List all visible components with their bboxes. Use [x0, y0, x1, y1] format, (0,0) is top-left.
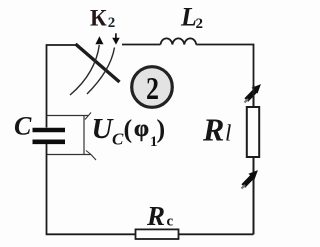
- resistor Rc box: [136, 229, 179, 239]
- nonlinear slash 1: [246, 91, 255, 101]
- voltage bracket Uc: [47, 115, 89, 117]
- svg-text:L: L: [180, 3, 197, 32]
- node 2 circle: [132, 67, 173, 108]
- switch blade K2: [76, 44, 120, 82]
- wire top-left segment: [47, 45, 77, 128]
- resistor Rl box: [247, 107, 259, 157]
- svg-text:2: 2: [108, 15, 116, 31]
- wire capacitor to bottom-left corner: [47, 144, 136, 234]
- wire slash1 to box: [253, 85, 255, 107]
- wire top-right segment: [122, 44, 161, 46]
- svg-text:(: (: [124, 114, 133, 143]
- capacitor C: [33, 128, 66, 133]
- bottom wire right: [179, 233, 254, 235]
- svg-text:): ): [157, 114, 166, 143]
- svg-text:К: К: [90, 6, 107, 31]
- wire from inductor to right corner: [196, 45, 253, 86]
- nonlinear slash 2: [243, 177, 252, 187]
- svg-text:C: C: [14, 112, 32, 141]
- svg-text:2: 2: [196, 16, 204, 32]
- svg-text:R: R: [146, 201, 165, 231]
- svg-text:R: R: [202, 112, 224, 148]
- wire box to slash2: [253, 157, 255, 234]
- svg-text:2: 2: [146, 70, 159, 106]
- switch arrow left: [70, 45, 99, 95]
- inductor L2: [161, 38, 197, 44]
- svg-text:φ: φ: [134, 116, 149, 142]
- switch arrow right: [87, 48, 115, 95]
- svg-text:l: l: [225, 121, 231, 146]
- svg-text:C: C: [112, 130, 124, 149]
- svg-text:c: c: [167, 214, 174, 230]
